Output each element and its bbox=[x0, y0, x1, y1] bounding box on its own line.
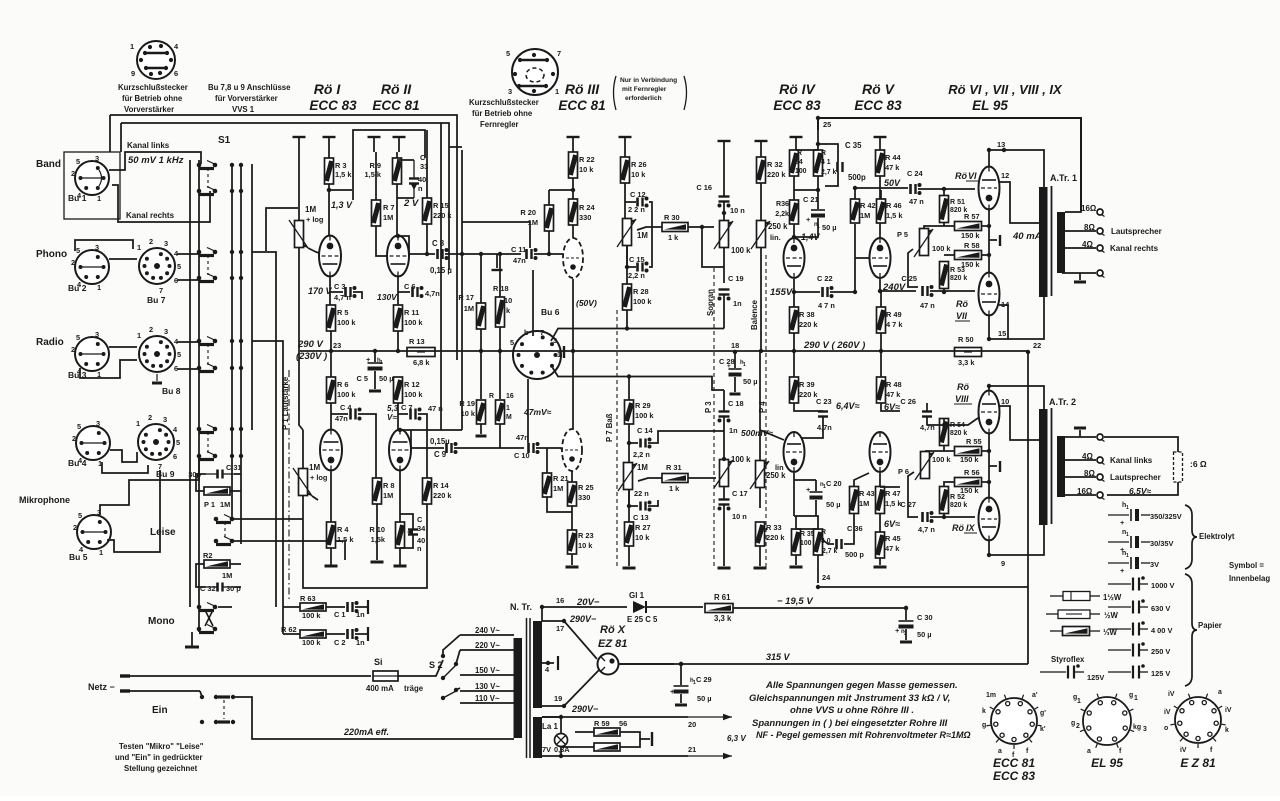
wire tap0 bbox=[1062, 272, 1096, 274]
svg-text:Rö V: Rö V bbox=[862, 81, 896, 97]
svg-text:R 21: R 21 bbox=[553, 474, 569, 483]
wire heater top bbox=[542, 717, 561, 733]
ground C30 bbox=[900, 641, 912, 644]
transformer A.Tr.1 secondary bbox=[1057, 212, 1065, 273]
svg-text:S1: S1 bbox=[218, 135, 231, 146]
wire Kanal links bbox=[109, 152, 201, 170]
svg-text:C: C bbox=[417, 515, 423, 524]
svg-text:47n: 47n bbox=[513, 256, 526, 265]
wire IV lower bot bbox=[793, 473, 795, 516]
svg-text:47 n: 47 n bbox=[920, 301, 935, 310]
wire rail join y430 bbox=[411, 429, 462, 431]
wire to R7 bbox=[329, 189, 352, 191]
wire R58 left bbox=[944, 254, 954, 256]
wire C14 to pot top bbox=[648, 431, 724, 443]
wire load top bbox=[1104, 437, 1178, 452]
svg-text:R 13: R 13 bbox=[409, 337, 425, 346]
svg-text:5: 5 bbox=[76, 157, 80, 166]
svg-text:C 11: C 11 bbox=[511, 245, 526, 254]
svg-text:2: 2 bbox=[72, 434, 76, 443]
svg-text:19: 19 bbox=[554, 694, 562, 703]
wire R15 bottom bbox=[426, 224, 428, 254]
wire stub grid T bbox=[496, 254, 498, 268]
resistor R19 10k bbox=[477, 400, 486, 424]
wire R54 bot bbox=[943, 446, 945, 451]
svg-text:6: 6 bbox=[174, 69, 178, 78]
svg-text:155V: 155V bbox=[770, 287, 793, 298]
wire R9 top bbox=[396, 152, 398, 158]
svg-text:5: 5 bbox=[510, 338, 514, 347]
wire C28 bot bbox=[734, 377, 736, 392]
wire Bu7-S1 a bbox=[177, 253, 199, 255]
wire C34 top bbox=[400, 514, 413, 529]
svg-text:50 µ: 50 µ bbox=[826, 500, 841, 509]
ground ATr2 bbox=[1074, 427, 1086, 430]
svg-text:1n: 1n bbox=[356, 638, 365, 647]
tube Roe IV lower bbox=[784, 432, 805, 472]
svg-text:100 k: 100 k bbox=[404, 390, 423, 399]
svg-text:10 n: 10 n bbox=[732, 512, 747, 521]
svg-text:C 26: C 26 bbox=[900, 397, 916, 406]
supply stub R9 top bbox=[393, 136, 406, 138]
resistor R28 100k bbox=[623, 284, 632, 310]
svg-text:100 k: 100 k bbox=[635, 411, 654, 420]
svg-text:C 6: C 6 bbox=[404, 282, 416, 291]
wire R16 hang bbox=[499, 352, 501, 399]
wire C22 to V grid bbox=[830, 224, 855, 292]
svg-text:C 32: C 32 bbox=[200, 584, 216, 593]
svg-text:Testen "Mikro" "Leise": Testen "Mikro" "Leise" bbox=[119, 742, 204, 751]
resistor R31 1k bbox=[662, 474, 688, 483]
svg-text:+: + bbox=[1120, 518, 1125, 527]
wire EZ81 out bbox=[619, 663, 674, 665]
svg-text:1M: 1M bbox=[637, 463, 648, 472]
svg-text:iV: iV bbox=[1164, 709, 1171, 716]
wire R27 bbox=[628, 490, 630, 522]
svg-text:ECC 83: ECC 83 bbox=[854, 98, 902, 113]
note Nur in Verbindung mit Fernregler bbox=[614, 76, 617, 110]
svg-text:C 30: C 30 bbox=[917, 613, 933, 622]
svg-text:Nur in Verbindung: Nur in Verbindung bbox=[620, 77, 677, 84]
svg-text:Rö X: Rö X bbox=[600, 624, 626, 636]
svg-text:C 29: C 29 bbox=[696, 675, 712, 684]
svg-text:16: 16 bbox=[506, 393, 514, 400]
svg-text:k': k' bbox=[1040, 726, 1046, 733]
terminal top b bbox=[1097, 434, 1103, 440]
svg-text:2,2 n: 2,2 n bbox=[633, 450, 650, 459]
wire R20 top bbox=[548, 190, 550, 205]
wire R6 bot bbox=[330, 403, 332, 431]
wire C14 bbox=[629, 442, 638, 444]
svg-text:C 17: C 17 bbox=[732, 489, 748, 498]
resistor R35 100 bbox=[792, 529, 801, 555]
wire heater ct bbox=[542, 662, 554, 664]
svg-text:R 27: R 27 bbox=[635, 523, 651, 532]
capacitor C9 bbox=[445, 443, 448, 453]
wire R28 bbox=[626, 246, 628, 284]
svg-text:50 µ: 50 µ bbox=[379, 374, 394, 383]
svg-text:1M: 1M bbox=[222, 571, 232, 580]
wire C20 bot bbox=[815, 500, 817, 516]
svg-text:23: 23 bbox=[333, 341, 341, 350]
svg-text:1M: 1M bbox=[637, 231, 648, 240]
svg-text:o: o bbox=[1164, 725, 1168, 732]
svg-text:kg: kg bbox=[1133, 724, 1141, 731]
svg-text:k: k bbox=[982, 708, 986, 715]
svg-text:3: 3 bbox=[163, 415, 167, 424]
svg-text:630 V: 630 V bbox=[1151, 604, 1170, 613]
wire C3 stub bbox=[330, 291, 343, 293]
svg-text:5: 5 bbox=[177, 262, 181, 271]
svg-text:Elektrolyt: Elektrolyt bbox=[1199, 532, 1235, 541]
wire C36 left bbox=[818, 536, 834, 544]
wire R36b bbox=[793, 190, 795, 200]
wire R29 bot bbox=[628, 424, 630, 462]
svg-text:1: 1 bbox=[506, 405, 510, 412]
wire bus 24 line bbox=[818, 586, 1028, 588]
transformer A.Tr.1 primary bbox=[1039, 187, 1048, 297]
wire R12 bot bbox=[397, 403, 399, 431]
wire Bu4-Bu9 a bbox=[110, 450, 137, 462]
svg-text:+: + bbox=[806, 215, 811, 224]
svg-text:R 35: R 35 bbox=[800, 531, 815, 538]
svg-text:1: 1 bbox=[1134, 695, 1138, 702]
resistor load 16ohm dashed bbox=[1174, 452, 1183, 482]
svg-text:14: 14 bbox=[1001, 300, 1010, 309]
T stub C1 bbox=[367, 600, 369, 614]
svg-text:R 58: R 58 bbox=[964, 241, 980, 250]
svg-text:56: 56 bbox=[619, 719, 627, 728]
svg-text:250 k: 250 k bbox=[768, 222, 788, 231]
resistor R55 150k bbox=[955, 447, 982, 456]
svg-text:350/325V: 350/325V bbox=[1150, 512, 1182, 521]
wire V anode to C25 bbox=[880, 279, 916, 291]
switch S2 bbox=[441, 654, 445, 658]
svg-text:50 mV 1 kHz: 50 mV 1 kHz bbox=[128, 155, 184, 166]
ground R23 bbox=[566, 566, 579, 569]
svg-text:5: 5 bbox=[77, 422, 81, 431]
svg-text:47n: 47n bbox=[335, 414, 348, 423]
wire Bu5 up bbox=[100, 458, 199, 515]
wire pot1 top bbox=[298, 152, 300, 220]
junction dots misc bbox=[571, 188, 575, 192]
svg-text:R 50: R 50 bbox=[958, 335, 974, 344]
svg-text:R 48: R 48 bbox=[886, 380, 902, 389]
svg-text:C 2: C 2 bbox=[334, 638, 346, 647]
supply stub R44 bbox=[874, 136, 887, 138]
svg-text:4 1: 4 1 bbox=[821, 159, 831, 166]
svg-text:1: 1 bbox=[130, 42, 134, 51]
resistor R56 150k bbox=[955, 478, 982, 487]
switch S1 contact row 5 bbox=[197, 339, 202, 344]
svg-text:1 k: 1 k bbox=[668, 233, 679, 242]
wire C18 top bbox=[723, 390, 725, 411]
svg-text:1n: 1n bbox=[729, 426, 738, 435]
svg-text:R 46: R 46 bbox=[886, 201, 902, 210]
cathode bar VIII IX bbox=[999, 461, 1001, 472]
wire VIII grid bbox=[944, 418, 978, 425]
wire pot wiper to R30 bbox=[637, 227, 662, 230]
resistor R36b 2.2k bbox=[790, 200, 799, 224]
svg-text:50 µ: 50 µ bbox=[822, 223, 837, 232]
socket Bu2 bbox=[75, 250, 109, 284]
svg-text:1½W: 1½W bbox=[1103, 593, 1122, 602]
svg-text:R 25: R 25 bbox=[578, 483, 594, 492]
svg-text:R 6: R 6 bbox=[337, 380, 349, 389]
svg-text:Stellung gezeichnet: Stellung gezeichnet bbox=[124, 764, 198, 773]
wire R34R41 join bbox=[794, 176, 818, 190]
wire R62-C2 bbox=[326, 633, 345, 635]
svg-text:R 42: R 42 bbox=[860, 201, 876, 210]
svg-text:Spannungen in ( ) bei einge: Spannungen in ( ) bei eingesetzter Rohre… bbox=[752, 718, 948, 729]
svg-text:Bu 4: Bu 4 bbox=[68, 458, 87, 468]
svg-text:220 k: 220 k bbox=[433, 211, 452, 220]
wire C10 right bbox=[536, 447, 561, 449]
svg-text:R 22: R 22 bbox=[579, 155, 595, 164]
wire bass wiper to R31 bbox=[638, 478, 662, 481]
svg-text:Ein: Ein bbox=[152, 705, 168, 716]
T heater bbox=[557, 656, 559, 670]
T stub Bu6 grid bbox=[492, 269, 503, 271]
wire R26-C12 bbox=[625, 183, 636, 232]
wire R43 top bbox=[854, 473, 869, 487]
potentiometer bass 1M bbox=[624, 463, 633, 490]
legend papier cap 125 V bbox=[1108, 671, 1131, 673]
svg-text:220 V~: 220 V~ bbox=[475, 641, 500, 650]
pinout EL95 bbox=[1083, 697, 1131, 745]
svg-text:R 56: R 56 bbox=[964, 468, 980, 477]
svg-text:2: 2 bbox=[71, 258, 75, 267]
wire VIII screen bbox=[999, 406, 1039, 440]
svg-text:110 V~: 110 V~ bbox=[475, 694, 500, 703]
ground C29 bbox=[675, 704, 687, 707]
wire tube III down bbox=[572, 279, 574, 429]
svg-text:g: g bbox=[1071, 720, 1075, 727]
resistor R12 100k bbox=[394, 377, 403, 403]
wire sopran top bbox=[723, 213, 725, 220]
wire Mono X2 bbox=[205, 610, 213, 626]
svg-text:R 49: R 49 bbox=[886, 310, 902, 319]
svg-text:6: 6 bbox=[173, 452, 177, 461]
svg-text:Vorverstärker: Vorverstärker bbox=[124, 105, 174, 114]
wire R30 right bbox=[688, 226, 714, 228]
switch S1 contact row 1 bbox=[197, 163, 202, 168]
svg-text:40 mA: 40 mA bbox=[1012, 231, 1042, 242]
terminal 8ohm b bbox=[1097, 474, 1103, 480]
svg-text:Bu 8: Bu 8 bbox=[162, 386, 181, 396]
svg-text:erforderlich: erforderlich bbox=[625, 95, 662, 102]
wire C31 right bbox=[234, 473, 241, 475]
wire C9 to C10 bbox=[454, 447, 524, 449]
tube Roe VIII EL95 bbox=[979, 391, 1000, 434]
svg-text:R 47: R 47 bbox=[885, 489, 901, 498]
wire S2 to 240 bbox=[443, 635, 460, 656]
wire B+ rail lower bbox=[121, 123, 449, 270]
switch Leise contact a bbox=[214, 517, 219, 522]
svg-text:130 V~: 130 V~ bbox=[475, 682, 500, 691]
svg-text:Rö VI , VII , VIII , IX: Rö VI , VII , VIII , IX bbox=[948, 82, 1063, 97]
ground ATr1 bbox=[1074, 281, 1086, 284]
svg-text:ECC 81: ECC 81 bbox=[993, 756, 1035, 770]
tube Roe I lower triode bbox=[320, 430, 342, 471]
svg-text:R 10: R 10 bbox=[369, 525, 385, 534]
svg-text:3: 3 bbox=[95, 330, 99, 339]
node bus joins bbox=[329, 349, 333, 353]
svg-text:1M: 1M bbox=[305, 205, 316, 214]
svg-text:für Betrieb ohne: für Betrieb ohne bbox=[122, 94, 183, 103]
svg-text:13: 13 bbox=[997, 140, 1005, 149]
terminal 0 a bbox=[1097, 270, 1103, 276]
wire IV anode to C22 bbox=[794, 279, 820, 292]
supply stub R3 top bbox=[323, 136, 336, 138]
svg-text:EL 95: EL 95 bbox=[1091, 756, 1123, 770]
bus terminator T at Bu6 bbox=[563, 346, 565, 358]
svg-text:Bu 2: Bu 2 bbox=[68, 283, 87, 293]
switch Ein a bbox=[200, 695, 204, 699]
wire R10 gnd bbox=[399, 548, 401, 566]
svg-text:500p: 500p bbox=[848, 173, 866, 182]
wire R5 to bus bbox=[330, 331, 332, 351]
svg-text:5: 5 bbox=[76, 246, 80, 255]
wire C7 left bbox=[398, 413, 408, 415]
wire P5 top bbox=[924, 226, 954, 228]
wire pot1 wiper to grid bbox=[308, 248, 319, 253]
wire P6 top bbox=[925, 450, 954, 452]
switch S1 contact row 3 bbox=[197, 250, 202, 255]
svg-text:C 31: C 31 bbox=[226, 463, 242, 472]
resistor R47 1.5k bbox=[876, 487, 885, 514]
legend papier cap 250 V bbox=[1108, 649, 1131, 651]
tube Roe III upper (dashed) bbox=[563, 238, 583, 278]
svg-text:4,7n: 4,7n bbox=[425, 289, 440, 298]
socket Bu3 bbox=[75, 337, 109, 371]
wire R35 gnd bbox=[795, 555, 797, 565]
wire C5 bot bbox=[374, 371, 376, 389]
svg-text:R 24: R 24 bbox=[579, 203, 596, 212]
wire tap8 b bbox=[1065, 476, 1096, 478]
svg-text:k: k bbox=[1225, 727, 1229, 734]
svg-text:Rö: Rö bbox=[956, 299, 968, 309]
svg-text:g': g' bbox=[1040, 710, 1046, 717]
resistor R13 6.8k bbox=[407, 348, 435, 357]
wire Leise out a bbox=[234, 518, 303, 520]
socket Bu9 bbox=[138, 424, 174, 460]
pinout EZ81 bbox=[1175, 697, 1221, 743]
potentiometer bass3 250k lin bbox=[756, 461, 765, 488]
svg-text:− 19,5 V: − 19,5 V bbox=[777, 596, 813, 607]
switch S1 contact row 8 bbox=[197, 454, 202, 459]
wire dashed P3 vert bbox=[713, 268, 715, 568]
wire pot-C15 bbox=[627, 246, 636, 267]
capacitor C3 47n bbox=[344, 287, 347, 297]
potentiometer P1 1M bbox=[204, 487, 230, 495]
svg-text:iV: iV bbox=[1168, 691, 1175, 698]
electrolytic C5 50u bbox=[368, 362, 383, 364]
wire R56 right bbox=[982, 481, 989, 483]
legend resistor 1.5W bbox=[1050, 595, 1063, 597]
svg-text:NF - Pegel gemessen mit Roh: NF - Pegel gemessen mit Rohrenvoltmeter … bbox=[756, 730, 971, 740]
svg-text:Mikrophone: Mikrophone bbox=[19, 495, 70, 505]
svg-text:150 k: 150 k bbox=[960, 455, 979, 464]
svg-text:R 43: R 43 bbox=[859, 489, 875, 498]
wire R62 line bbox=[283, 633, 300, 635]
svg-text:M: M bbox=[506, 414, 512, 421]
wire tube4 bot bbox=[399, 471, 401, 522]
svg-text:1M: 1M bbox=[464, 304, 474, 313]
svg-text:P 7 Baß: P 7 Baß bbox=[605, 413, 614, 442]
svg-text:1: 1 bbox=[380, 360, 383, 366]
node C8 junction bbox=[425, 252, 429, 256]
svg-text:+ log: + log bbox=[306, 215, 324, 224]
svg-text:2: 2 bbox=[71, 345, 75, 354]
potentiometer bass2 100k bbox=[720, 460, 729, 487]
wire 20V line bbox=[542, 607, 627, 621]
wire R14 top bbox=[426, 430, 428, 478]
svg-text:1M: 1M bbox=[860, 211, 870, 220]
wire balance bot bbox=[760, 248, 762, 351]
svg-text:n: n bbox=[418, 184, 423, 193]
wire Bu6 to C10 line bbox=[527, 379, 529, 443]
wire R39-C23 bbox=[794, 403, 823, 411]
svg-text:Gl 1: Gl 1 bbox=[629, 591, 645, 600]
svg-text:220mA eff.: 220mA eff. bbox=[343, 727, 389, 737]
svg-text:10 k: 10 k bbox=[578, 541, 593, 550]
wire R63-C1 bbox=[326, 606, 345, 608]
wire R4 gnd bbox=[330, 548, 332, 566]
wire C25 right bbox=[930, 290, 975, 292]
svg-text:24: 24 bbox=[822, 573, 831, 582]
svg-text:1M: 1M bbox=[220, 500, 230, 509]
svg-text:a': a' bbox=[1032, 692, 1038, 699]
resistor R14 220k bbox=[423, 478, 432, 504]
supply stub R34 bbox=[790, 136, 803, 138]
wire mains top bbox=[130, 675, 371, 677]
wire fuse to S2 bbox=[398, 660, 443, 676]
wire load bot bbox=[1107, 482, 1178, 495]
svg-text:1: 1 bbox=[137, 331, 141, 340]
svg-text:1,5 k: 1,5 k bbox=[335, 170, 352, 179]
svg-text:7: 7 bbox=[557, 49, 561, 58]
svg-text:17: 17 bbox=[556, 624, 564, 633]
svg-text:R 5: R 5 bbox=[337, 308, 349, 317]
wire R49 bbox=[880, 292, 882, 307]
svg-text:C 14: C 14 bbox=[637, 426, 654, 435]
wire C35 loop bot bbox=[825, 172, 838, 186]
svg-text:C 5: C 5 bbox=[356, 374, 368, 383]
cathode bar VI VII bbox=[999, 235, 1001, 246]
wire C11 right bbox=[534, 253, 575, 255]
svg-text:2: 2 bbox=[149, 237, 153, 246]
wire C4 right bbox=[358, 414, 376, 478]
svg-text:ohne VVS u ohne Röhre III: ohne VVS u ohne Röhre III . bbox=[790, 705, 914, 716]
wire R58 right bbox=[982, 254, 989, 256]
svg-text:Bu 9: Bu 9 bbox=[156, 469, 175, 479]
svg-text:125V: 125V bbox=[1087, 673, 1104, 682]
svg-text:A.Tr. 1: A.Tr. 1 bbox=[1050, 173, 1077, 183]
svg-text:1,5 k: 1,5 k bbox=[886, 211, 903, 220]
wire R23 gnd bbox=[571, 554, 573, 565]
resistor R6 100k bbox=[327, 377, 336, 403]
wire C21 bot bbox=[794, 218, 818, 237]
resistor R24 330 bbox=[569, 199, 578, 225]
svg-text:290 V ( 260V ): 290 V ( 260V ) bbox=[803, 340, 865, 351]
shorting plug socket (Betrieb ohne Vorverstaerker) bbox=[137, 41, 175, 79]
svg-text:und "Ein" in gedrückter: und "Ein" in gedrückter bbox=[115, 753, 203, 762]
svg-text:100: 100 bbox=[795, 168, 807, 175]
capacitor C33 40n bbox=[409, 177, 419, 179]
legend papier cap 1000 V bbox=[1108, 583, 1131, 585]
svg-text:30/35V: 30/35V bbox=[1150, 539, 1173, 548]
